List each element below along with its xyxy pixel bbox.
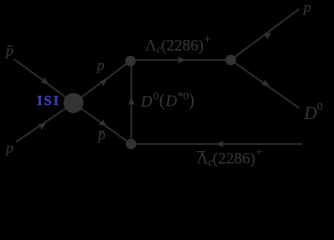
svg-text:p: p <box>97 127 106 143</box>
svg-text:p: p <box>303 0 312 16</box>
wire: Lambda_c(2286)+ line (upper vertex to right vertex) <box>131 59 231 61</box>
label: incoming antiproton p-bar (top left) <box>5 43 14 59</box>
arrow on outgoing D0 line <box>261 79 271 89</box>
upper vertex dot <box>125 56 136 67</box>
ISI interaction blob <box>64 93 84 113</box>
wire: D0(D*0) exchange propagator (vertical) <box>130 61 132 144</box>
label: anti-Lambda_c(2286)+ (bottom) <box>197 144 263 169</box>
arrow on incoming antiproton line <box>41 77 51 87</box>
wire: antiproton line (ISI blob to lower vertex) <box>74 103 132 144</box>
svg-text:ISI: ISI <box>37 93 60 108</box>
arrow on outgoing proton line <box>263 30 273 40</box>
arrow on D0 propagator (pointing up) <box>128 97 135 105</box>
arrow on incoming proton line <box>38 120 48 130</box>
arrow on Lambda_c line (pointing right) <box>178 57 186 64</box>
svg-text:Λc(2286)+: Λc(2286)+ <box>197 144 263 169</box>
svg-text:p: p <box>96 58 105 74</box>
svg-text:Λc(2286)+: Λc(2286)+ <box>145 31 211 56</box>
arrow on anti-Lambda_c line (pointing left) <box>216 141 224 148</box>
wire: outgoing D0 line (right vertex to bottom right) <box>231 60 299 108</box>
right vertex dot <box>226 55 237 66</box>
wire: anti-Lambda_c(2286)+ line (lower vertex to right) <box>131 143 302 145</box>
arrow on proton line to upper vertex <box>99 77 109 87</box>
wire: outgoing proton line (right vertex to top right) <box>231 9 299 60</box>
wire: proton line (ISI blob to upper vertex) <box>74 61 131 103</box>
svg-text:D0(D*0): D0(D*0) <box>140 90 195 110</box>
arrow on antiproton line to lower vertex <box>99 119 109 129</box>
wire: incoming antiproton line (top-left to ISI blob) <box>14 59 74 103</box>
svg-text:D0: D0 <box>303 101 323 123</box>
lower vertex dot <box>126 139 137 150</box>
wire: incoming proton line (bottom-left to ISI blob) <box>16 103 74 142</box>
svg-text:p: p <box>5 141 14 157</box>
label: antiproton p-bar (on blob-to-lower-vertex line) <box>97 127 106 143</box>
